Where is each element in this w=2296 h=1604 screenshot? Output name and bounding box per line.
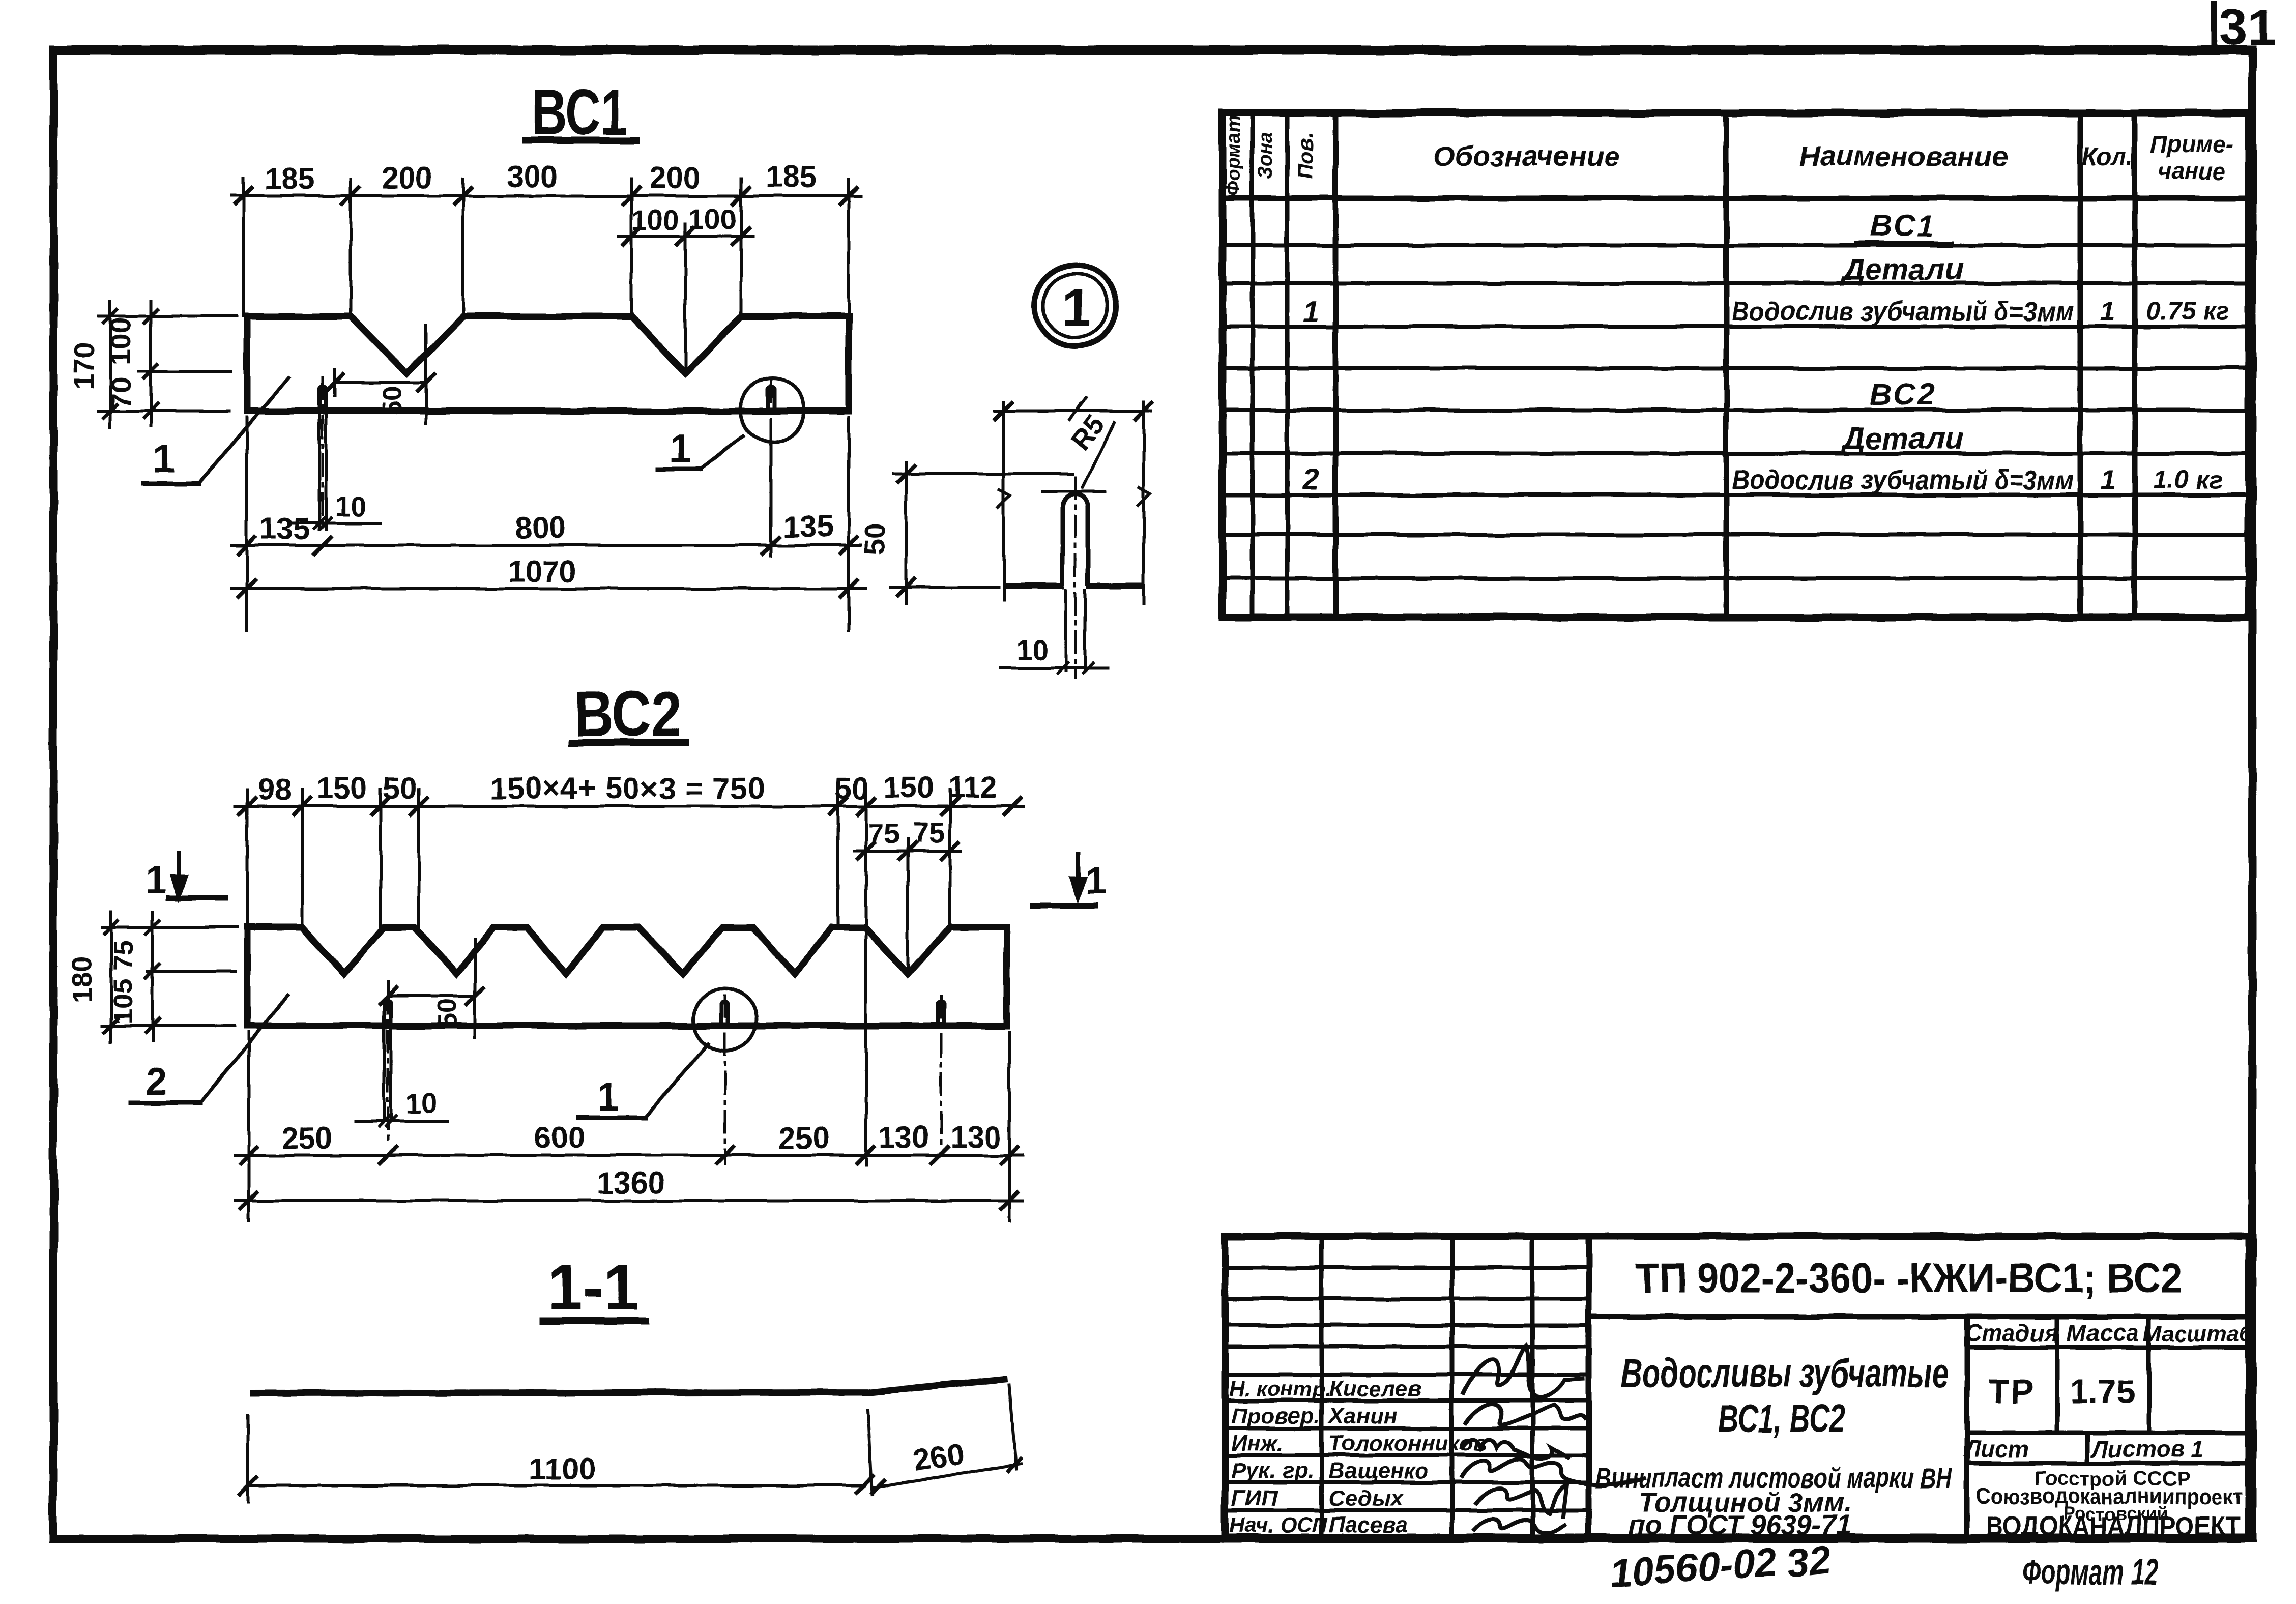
svg-text:150: 150 [316,771,367,805]
svg-text:32: 32 [1784,1537,1833,1586]
BC1 left slot centerline [322,377,324,530]
svg-text:10: 10 [1016,633,1048,665]
BC2 leader to detail circle [645,1044,708,1117]
svg-text:70: 70 [105,377,137,409]
svg-text:1: 1 [153,436,175,481]
BC2 right slot [938,1001,944,1026]
svg-text:1.75: 1.75 [2070,1373,2135,1410]
title block signature row lines [1225,1266,1589,1270]
BC1 plate outline with two V-notches [247,316,849,411]
BC1 top dimension line 185-200-300-200-185 [231,194,861,197]
detail bottom dim 10 [1000,666,1108,669]
svg-text:Листов 1: Листов 1 [2090,1436,2204,1462]
detail slot edge projection lines [1064,590,1067,670]
section right extension [1009,1385,1016,1469]
detail left boundary line [1002,402,1005,600]
svg-text:Детали: Детали [1840,252,1964,286]
svg-text:800: 800 [515,511,566,545]
svg-text:50: 50 [377,386,407,416]
BC2 dim line 75 75 [855,850,961,853]
BC2 overall dim line 1360 [235,1199,1023,1202]
svg-text:185: 185 [766,160,817,194]
BC1 leader to detail circle [700,436,744,469]
svg-text:2: 2 [1302,463,1319,496]
detail vertical dim 50 [905,462,908,603]
svg-text:135: 135 [259,512,310,546]
svg-text:50: 50 [432,999,462,1028]
svg-text:200: 200 [382,161,432,195]
title block name/stamp divider [1964,1317,1970,1537]
svg-text:0.75 кг: 0.75 кг [2146,297,2229,325]
signature squiggle Vashchenko [1461,1459,1646,1484]
svg-text:1: 1 [1303,295,1319,328]
svg-text:1: 1 [145,859,166,902]
BC2 left dim line 75-105 [151,912,154,1041]
svg-text:1: 1 [598,1075,619,1119]
BC2 position leader 2 [200,996,287,1103]
BC1 slot width dim 10 [293,521,380,524]
BC2 top dimension line [235,805,1024,808]
section bend tick [868,1410,872,1495]
BC2 left slot edge projection lines [383,1029,386,1119]
svg-text:100: 100 [631,204,679,236]
svg-text:180: 180 [66,956,98,1003]
svg-text:Наименование: Наименование [1799,140,2008,172]
detail top dim line with breaks [995,410,1151,413]
svg-text:1100: 1100 [529,1452,595,1486]
title block outer border [1225,1236,2249,1537]
BC1 left dim line 100-70 [149,301,152,426]
BC2 left extension line middle [148,970,236,973]
signature squiggle Khanin [1465,1404,1586,1425]
detail slot top level line [1042,490,1105,493]
detail mark circle 1 [1035,265,1116,346]
BC1 left extension line bottom [99,410,229,413]
svg-text:Ващенко: Ващенко [1329,1459,1429,1483]
BC1 dimension line 100 100 [618,235,753,238]
svg-text:1: 1 [669,426,691,471]
svg-text:130: 130 [950,1120,1001,1154]
svg-text:1: 1 [1062,278,1091,337]
svg-text:Киселев: Киселев [1329,1376,1421,1401]
svg-text:105: 105 [108,978,138,1024]
svg-text:98: 98 [258,772,292,806]
page number bracket [2211,4,2217,48]
BC2 left extension line bottom [102,1024,234,1027]
section dim 260 angled [873,1464,1021,1488]
title block List divider [2085,1433,2090,1463]
BC2 slot depth dim 50 [388,995,475,998]
svg-text:Ханин: Ханин [1327,1404,1397,1428]
title BC1 underline [526,137,636,144]
BC2 section marker 1 left [177,853,182,893]
svg-text:150: 150 [883,770,934,804]
svg-text:50: 50 [383,771,417,805]
svg-text:1-1: 1-1 [547,1251,639,1323]
spec table row lines [1223,243,2249,247]
signature squiggle Sedykh [1474,1484,1567,1519]
title block signature column lines [1320,1236,1324,1537]
svg-text:ВОДОКАНАЛПРОЕКТ: ВОДОКАНАЛПРОЕКТ [1986,1511,2241,1541]
svg-text:по ГОСТ 9639-71: по ГОСТ 9639-71 [1629,1510,1852,1540]
svg-text:Провер.: Провер. [1231,1404,1320,1428]
svg-text:250: 250 [282,1121,333,1155]
title block stamp column lines [2055,1317,2059,1433]
svg-text:185: 185 [264,162,315,196]
svg-text:чание: чание [2158,158,2226,184]
BC1 left extension line top [99,315,237,318]
detail dim top extension [894,472,1072,475]
title block stamp row lines [1967,1345,2249,1350]
section plate line [250,1379,1008,1393]
detail slot outline [1063,494,1088,586]
BC1 left slot [319,387,326,411]
signature squiggle Kiselev [1463,1346,1585,1397]
BC2 long extension line through plate [864,790,867,1165]
svg-text:2: 2 [146,1060,167,1103]
BC1 bottom dim line 135-800-135 [231,544,861,547]
svg-text:Масштаб: Масштаб [2143,1321,2254,1346]
BC2 bottom extension lines [247,1032,250,1221]
svg-text:1: 1 [1085,859,1107,902]
svg-text:Детали: Детали [1840,421,1964,455]
svg-text:135: 135 [782,510,833,544]
svg-text:Инж.: Инж. [1231,1431,1284,1456]
svg-text:Кол.: Кол. [2082,143,2133,170]
detail dim bottom extension [890,586,998,589]
detail right boundary line [1142,402,1145,603]
BC1 position leader 1 left [198,377,289,483]
svg-text:Н. контр.: Н. контр. [1229,1377,1331,1401]
BC1 bottom extension lines [245,417,248,631]
svg-text:100: 100 [104,317,136,365]
svg-text:10: 10 [405,1087,437,1119]
svg-text:Формат: Формат [1223,115,1244,196]
svg-text:260: 260 [911,1437,966,1477]
detail plate bottom edge right segment [1090,583,1140,589]
svg-text:Формат 12: Формат 12 [2022,1552,2158,1592]
svg-text:Водослив зубчатый δ=3мм: Водослив зубчатый δ=3мм [1732,465,2074,495]
BC2 circled slot [721,1001,728,1026]
svg-text:50: 50 [835,771,869,805]
svg-text:100: 100 [688,203,736,235]
svg-text:Зона: Зона [1255,132,1276,179]
section dim 1100 [248,1484,865,1487]
svg-text:Толоконников: Толоконников [1329,1431,1487,1456]
BC2 slot width dim 10 [356,1120,448,1123]
svg-text:ВС1: ВС1 [1870,209,1937,243]
svg-text:31: 31 [2219,0,2276,56]
svg-text:Пов.: Пов. [1293,132,1317,180]
BC2 left dim line 180 [109,912,112,1042]
BC2 left slot centerline [387,992,389,1144]
svg-text:Стадия: Стадия [1965,1320,2058,1346]
title 1-1 underline [543,1317,645,1324]
svg-text:1: 1 [2100,465,2115,495]
detail plate bottom edge left segment [1006,583,1061,589]
BC2 right slot centerline [940,996,943,1146]
frame top border extra thickness [53,50,2252,55]
BC2 plate outline with six V-notches [247,927,1007,1026]
svg-text:ВС2: ВС2 [1870,377,1937,412]
svg-text:250: 250 [778,1121,829,1155]
BC2 tooth center extension [906,839,909,971]
BC1 notch center extension line [684,224,687,371]
svg-text:ТР: ТР [1988,1373,2035,1410]
svg-text:Пасева: Пасева [1329,1512,1408,1537]
svg-text:ВС2: ВС2 [574,678,682,750]
svg-text:ТП 902-2-360- -КЖИ-ВС1; ВС2: ТП 902-2-360- -КЖИ-ВС1; ВС2 [1636,1255,2183,1301]
signature squiggle Paseva [1473,1519,1566,1533]
BC2 circled slot centerline [724,995,726,1164]
svg-text:150×4+ 50×3 = 750: 150×4+ 50×3 = 750 [490,771,765,805]
BC2 left slot [384,1001,391,1026]
BC1 left slot edge projection lines [318,415,321,529]
spec table column lines [1251,113,1255,617]
svg-text:130: 130 [878,1120,929,1154]
BC2 section marker 1 right [1076,854,1081,894]
title BC2 underline [572,739,686,746]
BC1 detail circle [740,378,804,442]
BC1 slot depth dim 50 [335,381,426,384]
svg-text:170: 170 [68,342,100,389]
BC2 detail circle [693,988,757,1051]
BC2 left extension line top [102,926,237,929]
svg-text:Водослив зубчатый δ=3мм: Водослив зубчатый δ=3мм [1732,296,2074,327]
svg-text:ВС1, ВС2: ВС1, ВС2 [1718,1397,1845,1440]
svg-text:Водосливы зубчатые: Водосливы зубчатые [1621,1350,1949,1395]
BC1 right slot [768,387,774,411]
svg-text:600: 600 [534,1120,585,1154]
svg-text:10560-02: 10560-02 [1608,1539,1779,1596]
spec table outer border [1223,113,2249,617]
spec table header bottom line [1223,196,2249,201]
detail slot centerline [1074,477,1077,678]
detail radius leader [1083,422,1114,487]
svg-text:Обозначение: Обозначение [1433,140,1620,172]
BC1 left dim line 170 [109,301,112,427]
BC2 top dim extension lines [246,790,249,927]
BC1 overall dim line 1070 [231,587,865,590]
svg-text:1360: 1360 [597,1166,664,1200]
svg-text:Нач. ОСП: Нач. ОСП [1229,1513,1328,1537]
BC1 right slot centerline [770,381,772,556]
svg-text:Масса: Масса [2067,1320,2138,1346]
BC1 top dim extension lines [242,179,245,316]
svg-text:1070: 1070 [508,555,576,589]
svg-text:75: 75 [913,816,945,849]
svg-text:1: 1 [2100,296,2115,327]
svg-text:Седых: Седых [1329,1486,1404,1511]
svg-text:300: 300 [507,160,558,194]
svg-text:112: 112 [948,770,998,804]
svg-text:Рук. гр.: Рук. гр. [1231,1459,1314,1483]
svg-text:Лист: Лист [1963,1436,2029,1462]
svg-text:1.0 кг: 1.0 кг [2153,465,2222,494]
signature squiggle Tolokonnikov [1461,1440,1570,1458]
svg-text:75: 75 [868,818,899,850]
BC1 left extension line middle [139,370,231,373]
title block big cell divider [1589,1314,2249,1320]
svg-text:200: 200 [650,161,701,195]
svg-text:50: 50 [858,523,890,555]
svg-text:Приме-: Приме- [2150,131,2233,158]
svg-text:75: 75 [108,940,138,971]
svg-text:10: 10 [335,490,367,522]
BC2 bottom dim line 250-600-250-130-130 [235,1154,1023,1157]
svg-text:ГИП: ГИП [1231,1486,1278,1511]
